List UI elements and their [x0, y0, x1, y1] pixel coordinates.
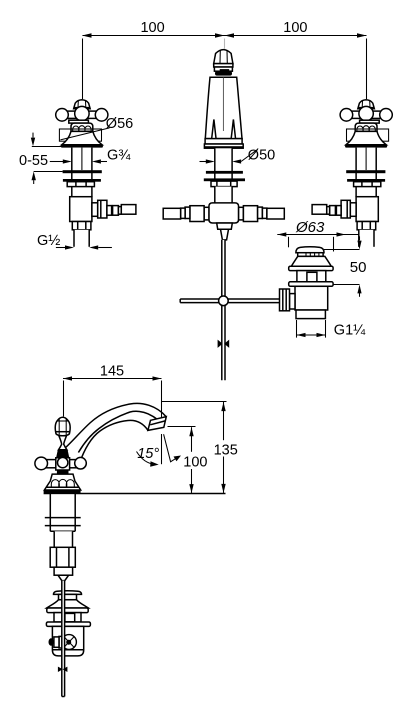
svg-text:G1¼: G1¼: [334, 322, 366, 338]
svg-text:100: 100: [283, 20, 307, 36]
svg-text:50: 50: [350, 259, 367, 276]
svg-text:145: 145: [100, 364, 124, 380]
svg-text:15°: 15°: [137, 446, 159, 462]
svg-text:Ø63: Ø63: [295, 219, 325, 236]
svg-text:G¾: G¾: [107, 147, 131, 163]
svg-text:0-55: 0-55: [19, 153, 48, 169]
svg-text:100: 100: [140, 20, 164, 36]
svg-text:Ø56: Ø56: [106, 116, 133, 132]
svg-text:135: 135: [214, 442, 238, 458]
svg-text:G½: G½: [37, 233, 60, 249]
svg-text:100: 100: [183, 454, 207, 470]
svg-text:Ø50: Ø50: [248, 147, 275, 163]
